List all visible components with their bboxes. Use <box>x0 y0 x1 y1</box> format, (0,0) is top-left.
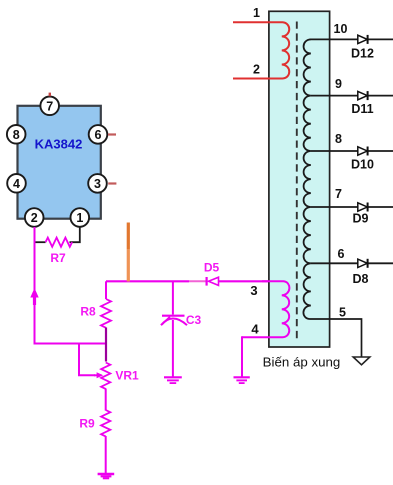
potentiometer VR1 <box>94 363 139 389</box>
wire tap 5 to ground <box>310 319 362 357</box>
pin 4 <box>7 174 26 193</box>
svg-text:R9: R9 <box>79 417 95 431</box>
svg-text:8: 8 <box>335 132 342 146</box>
svg-text:9: 9 <box>335 77 342 91</box>
wire R8 bottom to VR1 (dark) <box>105 328 107 362</box>
pin 6 <box>89 125 108 144</box>
wire D5 to transformer pin 3 <box>219 280 285 282</box>
svg-text:R8: R8 <box>80 305 96 319</box>
svg-text:D12: D12 <box>351 47 374 61</box>
pin 2 <box>25 208 44 227</box>
secondary winding (black) <box>303 39 310 319</box>
svg-text:D8: D8 <box>353 272 369 286</box>
resistor R7 <box>46 238 73 265</box>
wire pin2 to R7 (black lead) <box>35 241 46 243</box>
winding pins 3-4 (magenta) <box>242 281 289 337</box>
svg-text:5: 5 <box>339 306 346 320</box>
wire pin1 to R7 (black L) <box>70 227 80 242</box>
wire tap 9 <box>311 95 393 97</box>
wire pin 4 to ground <box>241 336 243 376</box>
resistor R9 <box>79 410 110 436</box>
wire VR1 to R9 <box>105 389 107 411</box>
IC U1 KA3842 <box>18 106 101 219</box>
ground (open triangle) <box>353 357 370 365</box>
ground below pin 4 <box>234 377 250 383</box>
svg-text:KA3842: KA3842 <box>35 137 83 152</box>
wire primary pin 1 (red) + winding <box>233 22 289 78</box>
svg-text:3: 3 <box>94 177 101 191</box>
svg-text:6: 6 <box>95 128 102 142</box>
ground below C3 <box>164 377 182 383</box>
diode D11 <box>351 91 373 116</box>
wire wiper branch <box>79 344 95 376</box>
capacitor C3 <box>161 281 201 327</box>
svg-text:R7: R7 <box>50 251 66 265</box>
svg-text:D9: D9 <box>353 212 369 226</box>
svg-text:1: 1 <box>253 6 260 20</box>
svg-text:7: 7 <box>335 187 342 201</box>
pin 1 <box>71 208 90 227</box>
svg-text:2: 2 <box>253 63 260 77</box>
svg-text:C3: C3 <box>186 313 202 327</box>
transformer body (Bien ap xung) <box>263 11 341 369</box>
wire C3 to ground <box>172 320 174 377</box>
svg-text:Biến áp xung: Biến áp xung <box>263 354 341 369</box>
pin 7 <box>40 97 59 116</box>
wire pin2 down (magenta) <box>35 227 107 344</box>
svg-text:8: 8 <box>13 128 20 142</box>
red stub pin 3 <box>108 182 116 184</box>
svg-text:4: 4 <box>13 177 20 191</box>
wire main node at top of R8 (magenta horizontal) <box>106 280 189 282</box>
svg-text:4: 4 <box>251 322 259 337</box>
diode D10 <box>351 147 374 172</box>
wire tap 6 <box>311 262 393 264</box>
svg-text:10: 10 <box>334 22 348 36</box>
wire tap 8 <box>311 150 393 152</box>
svg-text:2: 2 <box>31 211 38 225</box>
wire tap 7 <box>311 206 393 208</box>
resistor R8 <box>80 281 111 327</box>
arrow up on pin2 wire <box>30 288 38 298</box>
pin 3 <box>88 174 107 193</box>
diode D8 <box>353 259 369 286</box>
red stub above pin 7 <box>49 93 51 97</box>
svg-text:6: 6 <box>338 247 345 261</box>
svg-text:7: 7 <box>46 99 53 113</box>
diode D12 <box>351 35 374 61</box>
svg-text:D5: D5 <box>204 261 220 275</box>
svg-text:VR1: VR1 <box>115 369 139 383</box>
diode D5 <box>204 261 220 286</box>
red stub pin 6 <box>108 133 116 135</box>
svg-text:1: 1 <box>76 211 83 225</box>
svg-text:D10: D10 <box>351 158 374 172</box>
wire orange from top <box>127 223 130 250</box>
svg-text:3: 3 <box>250 283 257 298</box>
ground (arrow) below R9 <box>98 474 115 478</box>
svg-text:D11: D11 <box>351 102 373 116</box>
wire R9 to ground <box>105 436 107 474</box>
pin 8 <box>7 125 26 144</box>
wire tap 10 <box>310 38 393 40</box>
wire C3 to D5 (pink segment) <box>189 280 206 282</box>
diode D9 <box>353 203 369 226</box>
